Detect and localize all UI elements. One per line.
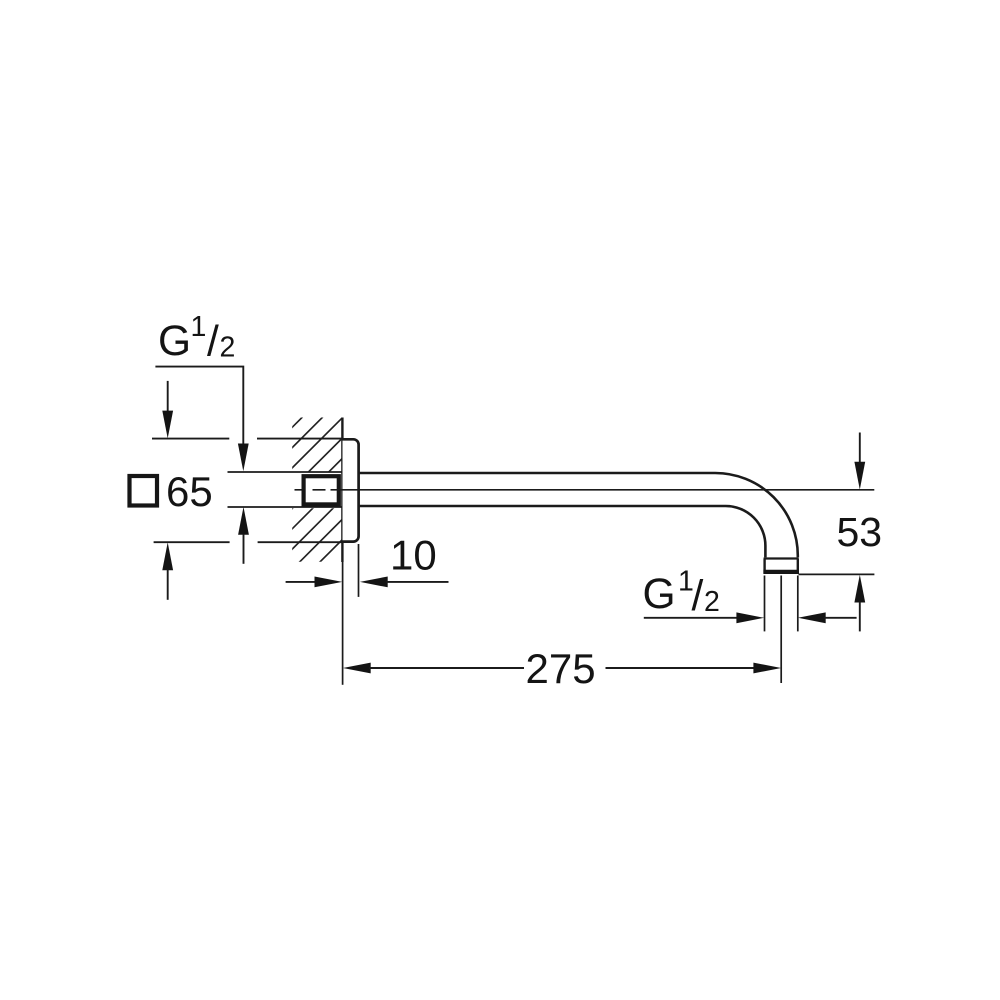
square thread socket in wall	[304, 476, 339, 504]
outlet axis extension line	[780, 576, 782, 684]
label square symbol for 65	[130, 476, 158, 506]
svg-text:2: 2	[220, 332, 236, 364]
svg-text:65: 65	[166, 468, 213, 515]
dim 275: line left part with left arrow at wall face	[343, 663, 371, 674]
svg-text:53: 53	[837, 509, 883, 555]
dim G1/2 bottom: right line with left-pointing arrow	[798, 612, 826, 623]
shower arm inner edge (bottom, bend)	[359, 506, 765, 557]
svg-text:/: /	[692, 573, 704, 620]
outlet collar bottom cap (thread end)	[763, 570, 799, 574]
dim 65: bottom extension line	[154, 541, 230, 543]
svg-text:10: 10	[390, 532, 437, 579]
svg-text:1: 1	[191, 311, 207, 343]
wall surface edge line	[341, 418, 343, 563]
outlet collar left edge	[763, 559, 765, 574]
svg-text:G: G	[643, 571, 676, 618]
dim 65: lower up arrow	[162, 542, 173, 570]
dim 10: left segment with right-pointing arrow at wall	[286, 581, 316, 583]
extension line pipe top edge through wall	[228, 471, 343, 473]
flange right edge extension line	[358, 544, 360, 597]
shower arm outer edge (top, bend)	[359, 473, 798, 557]
outlet collar right edge	[797, 559, 799, 574]
wall hatching upper	[120, 0, 882, 600]
dim G1/2 top: label leader line	[155, 367, 243, 444]
dim 53: upper down arrow to centerline	[859, 433, 861, 464]
pipe centerline (dash-dot then solid to 53 dim)	[295, 489, 875, 491]
wall hatching lower	[120, 0, 882, 600]
wall face extension line down	[342, 562, 344, 685]
svg-text:G: G	[158, 318, 191, 365]
dim G1/2 top: down arrow to pipe top	[238, 444, 249, 472]
dim 65: top extension line	[152, 438, 229, 440]
svg-text:2: 2	[704, 586, 720, 618]
extension line pipe bottom edge through wall	[228, 506, 343, 508]
dim 65: upper down arrow	[167, 381, 169, 412]
label G 1/2 (top)	[158, 311, 235, 366]
flange (escutcheon) outline	[343, 439, 359, 541]
outlet left edge extension line	[764, 576, 766, 632]
label G 1/2 (bottom)	[643, 566, 720, 621]
outlet collar top line	[764, 557, 799, 559]
dim 53: lower up arrow to nozzle end	[854, 575, 865, 603]
dim G1/2 bottom: left line with right-pointing arrow	[644, 617, 738, 619]
outlet right edge extension line	[797, 576, 799, 632]
dim G1/2 top: up arrow to pipe bottom	[238, 507, 249, 535]
dim 10: right segment with left-pointing arrow at flange	[360, 577, 388, 588]
dim 53: nozzle end extension line	[799, 573, 875, 575]
dim 275: line right part with right arrow at outlet axis	[606, 667, 756, 669]
svg-text:/: /	[207, 319, 219, 366]
svg-text:275: 275	[526, 645, 596, 692]
